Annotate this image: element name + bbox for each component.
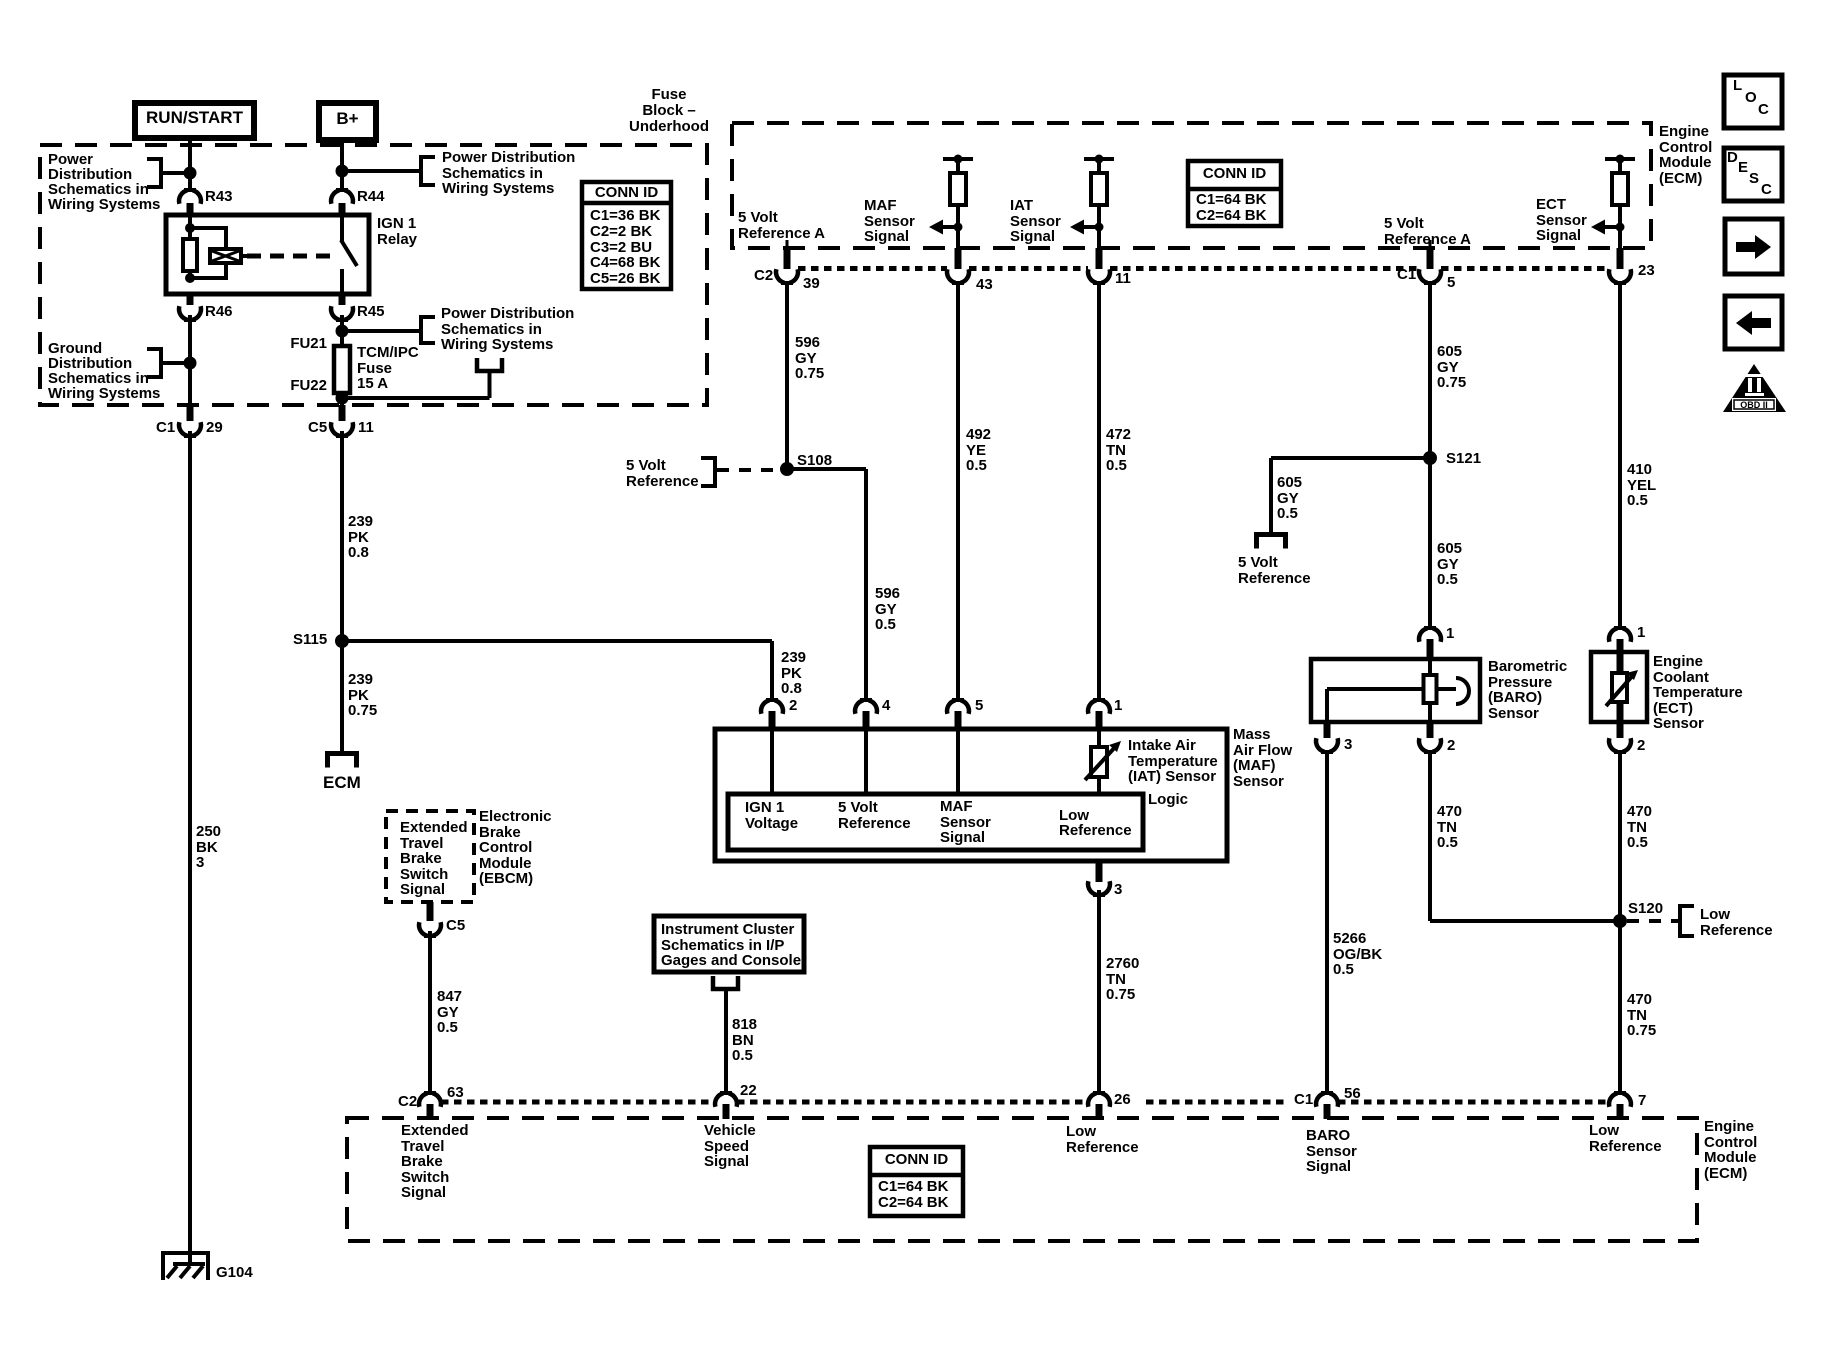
extended travel brake switch signal dashed box (EBCM) xyxy=(386,811,474,902)
junction dot power distribution tap xyxy=(184,167,197,180)
label 4 xyxy=(882,698,890,714)
wire IAT element to logic xyxy=(1097,777,1101,794)
relay switch contact upper xyxy=(340,215,344,241)
dashed wire bracket to S108 xyxy=(717,468,783,472)
BARO internal wire to pin 3 xyxy=(1327,687,1424,691)
connector C5 (EBCM) xyxy=(427,902,434,921)
junction dot IAT signal arrow xyxy=(1095,223,1104,232)
splice S115 xyxy=(335,634,349,648)
junction dot relay coil bottom xyxy=(185,273,195,283)
barometric pressure sensor box xyxy=(1311,659,1480,722)
label C5 (pin 11) xyxy=(308,420,327,436)
label IGN 1 Voltage xyxy=(745,800,798,831)
label MAF Sensor Signal (logic) xyxy=(940,799,991,846)
connector pin 11 (IAT) xyxy=(1096,248,1103,269)
label MAF Sensor Signal xyxy=(864,198,915,245)
label wire 605 GY 0.5 (main) xyxy=(1437,541,1462,588)
label IAT Sensor Signal xyxy=(1010,198,1061,245)
label wire 492 YE 0.5 xyxy=(966,427,991,474)
label FU22 xyxy=(281,378,327,394)
wire bracket to junction xyxy=(161,171,190,175)
wire S120 to ECM pin 7 xyxy=(1618,921,1622,1093)
label 5 Volt Reference (logic) xyxy=(838,800,911,831)
label CONN ID title (fuse block) xyxy=(582,185,671,201)
label 11 (fuse block) xyxy=(358,420,374,436)
wire B+ to R44 xyxy=(340,137,344,192)
label CONN ID rows (fuse block) xyxy=(590,208,660,287)
label 7 xyxy=(1638,1093,1646,1109)
label 3 (BARO) xyxy=(1344,737,1352,753)
label S108 xyxy=(797,453,832,469)
label wire 470 TN 0.5 (BARO) xyxy=(1437,804,1462,851)
label 3 (MAF) xyxy=(1114,882,1122,898)
instrument cluster staple xyxy=(713,976,738,989)
junction dot power distribution tap at R45 xyxy=(336,325,349,338)
label 5 xyxy=(1447,275,1455,291)
wire staple to fuse output xyxy=(488,371,492,398)
relay switch blade xyxy=(341,240,357,266)
connector pin 43 xyxy=(955,248,962,269)
engine control module dashed boundary (top) xyxy=(732,123,1651,248)
label S120 xyxy=(1628,901,1663,917)
label CONN ID rows (bottom) xyxy=(878,1179,948,1211)
label Ground Distribution Schematics in Wiring Systems xyxy=(48,341,160,401)
connector BARO pin 2 xyxy=(1427,722,1434,738)
engine control module dashed boundary (bottom) xyxy=(347,1118,1697,1241)
icon box back arrow xyxy=(1725,296,1782,349)
dashed wire S120 to low reference bracket xyxy=(1627,919,1678,923)
ECT thermistor element xyxy=(1606,670,1638,706)
label 2 (ECT) xyxy=(1637,738,1645,754)
label Fuse Block - Underhood xyxy=(610,87,728,135)
connector C5 pin 11 xyxy=(339,405,346,421)
wire ECT pin1 to element xyxy=(1617,652,1624,674)
wire BARO pin3 to ECM pin 56 xyxy=(1325,751,1329,1093)
wire 847 GY C5 to ECM pin 63 xyxy=(428,931,432,1093)
label S121 xyxy=(1446,451,1481,467)
connector pin C2-63 xyxy=(419,1091,441,1107)
off-page bracket Power Distribution (right of B+) xyxy=(421,157,435,185)
junction dot MAF signal arrow xyxy=(954,223,963,232)
label DESC letters xyxy=(1727,150,1738,166)
label 5 Volt Reference A (left) xyxy=(738,210,825,241)
wire resistor to pin 23 xyxy=(1618,205,1622,248)
wire junction to bracket xyxy=(342,169,421,173)
label C1 (pin 56) xyxy=(1294,1092,1313,1108)
connector R45 xyxy=(331,306,353,322)
connector R43 xyxy=(179,188,201,204)
CONN ID table (fuse block) xyxy=(582,182,671,289)
ECM connector face dotted line (top) xyxy=(798,266,947,271)
junction dot ECT signal arrow xyxy=(1616,223,1625,232)
wire MAF pin5 to logic xyxy=(956,729,960,794)
wire 818 BN to ECM pin 22 xyxy=(724,989,728,1093)
label 2 xyxy=(789,698,797,714)
label 5 Volt Reference A (right) xyxy=(1384,216,1471,247)
label OBD II xyxy=(1732,401,1776,410)
IAT sensor signal arrow xyxy=(1070,220,1099,235)
label 56 xyxy=(1344,1086,1361,1102)
wire S121 to BARO pin 1 xyxy=(1428,458,1432,629)
connector R44 xyxy=(331,188,353,204)
wire MAF pin2 to logic xyxy=(770,729,774,794)
label 5 Volt Reference (S108) xyxy=(626,458,699,489)
label 23 xyxy=(1638,263,1655,279)
wire 2760 TN MAF pin3 to ECM pin 26 xyxy=(1097,890,1101,1093)
connector MAF pin 2 xyxy=(761,698,783,714)
ECM internal resistor (MAF pull-up) xyxy=(956,159,960,174)
connector BARO pin 3 xyxy=(1324,722,1331,738)
junction dot relay coil top xyxy=(185,223,195,233)
connector MAF pin 3 xyxy=(1096,861,1103,882)
ECT sensor signal arrow xyxy=(1591,220,1620,235)
off-page bracket Power Distribution (top left) xyxy=(147,159,161,187)
wire 605 GY pin C1-5 to S121 xyxy=(1428,282,1432,458)
label FU21 xyxy=(281,336,327,352)
label LOC letters xyxy=(1733,78,1742,94)
ECM connector face dotted line (bottom) xyxy=(441,1100,715,1105)
connector pin 26 xyxy=(1088,1091,1110,1107)
wire RUN/START to R43 xyxy=(188,135,192,192)
label ECM xyxy=(323,775,361,791)
label Intake Air Temperature (IAT) Sensor xyxy=(1128,738,1218,785)
label ECT Sensor Signal xyxy=(1536,197,1587,244)
relay coil box with X xyxy=(210,249,241,263)
wire R46 down left column xyxy=(188,315,192,405)
label Mass Air Flow (MAF) Sensor xyxy=(1233,727,1292,789)
label S115 xyxy=(293,632,327,648)
label Power Distribution Schematics in Wiring Systems (top right) xyxy=(442,150,575,197)
fuse block underhood dashed boundary xyxy=(40,145,707,405)
connector R46 xyxy=(179,306,201,322)
label wire 847 GY 0.5 xyxy=(437,989,462,1036)
connector pin 22 xyxy=(715,1091,737,1107)
connector pin 23 xyxy=(1617,248,1624,269)
label 2 (BARO) xyxy=(1447,738,1455,754)
junction dot power distribution tap B+ xyxy=(336,165,349,178)
splice S108 xyxy=(780,462,794,476)
ECM internal resistor (IAT pull-up) xyxy=(1097,159,1101,174)
connector pin 7 xyxy=(1609,1091,1631,1107)
label CONN ID title (top) xyxy=(1188,166,1281,182)
label C1 (pin 29) xyxy=(156,420,175,436)
splice S121 xyxy=(1423,451,1437,465)
relay switch contact lower xyxy=(340,269,344,294)
wire 410 YEL pin23 to ECT pin 1 xyxy=(1618,282,1622,629)
wire MAF pin4 to logic xyxy=(864,729,868,794)
off-page bracket Low Reference (S120) xyxy=(1680,906,1694,936)
label CONN ID title (bottom) xyxy=(870,1152,963,1168)
connector pin C2-39 xyxy=(784,248,791,269)
label wire 410 YEL 0.5 xyxy=(1627,462,1656,509)
off-page bracket Power Distribution (at R45) xyxy=(421,317,435,343)
CONN ID table (bottom ECM) xyxy=(870,1147,963,1216)
wire S108 to MAF pin 4 xyxy=(787,467,866,471)
label wire 818 BN 0.5 xyxy=(732,1017,757,1064)
wire ECT pin2 to S120 xyxy=(1618,751,1622,921)
power feed box RUN/START xyxy=(132,100,257,141)
wire relay bottom to R46 xyxy=(187,294,194,304)
label Low Reference (pin 7) xyxy=(1589,1123,1662,1154)
icon box DESC xyxy=(1724,148,1782,201)
wire S121 to 5 volt reference branch xyxy=(1271,456,1430,460)
ECM internal node bar (ECT) xyxy=(1605,155,1635,164)
BARO resistor element xyxy=(1424,675,1437,703)
label R43 xyxy=(205,189,233,205)
connector MAF pin 5 xyxy=(947,698,969,714)
label wire 470 TN 0.5 (ECT) xyxy=(1627,804,1652,851)
icon box LOC xyxy=(1724,75,1782,128)
label Instrument Cluster Schematics in I/P Gages and Console xyxy=(661,922,801,969)
connector MAF pin 4 xyxy=(855,698,877,714)
label Power Distribution Schematics in Wiring Systems (top left) xyxy=(48,152,160,212)
label Extended Travel Brake Switch Signal (EBCM) xyxy=(400,820,468,898)
wire 596 GY pin39 to S108 xyxy=(785,282,789,469)
off-page bracket 5 Volt Reference (S108) xyxy=(701,458,715,486)
label wire 605 GY 0.75 xyxy=(1437,344,1466,391)
label 11 (IAT pin) xyxy=(1115,271,1131,287)
connector MAF pin 1 xyxy=(1088,698,1110,714)
relay box IGN 1 xyxy=(166,215,369,294)
label wire 5266 OG/BK 0.5 xyxy=(1333,931,1382,978)
label wire 2760 TN 0.75 xyxy=(1106,956,1139,1003)
ECM feed wire 5V ref A left xyxy=(786,240,789,248)
label 22 xyxy=(740,1083,757,1099)
relay resistor xyxy=(183,239,197,271)
label wire 239 PK 0.8 (left) xyxy=(348,514,373,561)
label Barometric Pressure (BARO) Sensor xyxy=(1488,659,1567,721)
label Low Reference (pin 26) xyxy=(1066,1124,1139,1155)
ECM wire terminal staple xyxy=(328,754,357,768)
label 63 xyxy=(447,1085,464,1101)
off-page bracket Ground Distribution xyxy=(147,349,161,377)
connector BARO pin 1 xyxy=(1419,626,1441,642)
label Electronic Brake Control Module (EBCM) xyxy=(479,809,552,887)
icon box forward arrow xyxy=(1725,219,1782,274)
label TCM/IPC Fuse 15 A xyxy=(357,345,419,392)
wire resistor to pin 43 xyxy=(956,205,960,248)
connector ECT pin 1 xyxy=(1609,626,1631,642)
splice S120 xyxy=(1613,914,1627,928)
wire fuse to C5 connector xyxy=(340,398,344,405)
wire R45 to fuse FU21 xyxy=(340,315,344,346)
MAF logic box xyxy=(728,794,1143,850)
label wire 239 PK 0.8 (right) xyxy=(781,650,806,697)
wire junction to bracket xyxy=(342,329,421,333)
label 1 (MAF) xyxy=(1114,698,1122,714)
label 39 xyxy=(803,276,820,292)
icon OBD II triangle xyxy=(1723,364,1786,412)
relay coil loop wires xyxy=(190,228,226,278)
label 26 xyxy=(1114,1092,1131,1108)
connector pin C1-5 xyxy=(1427,248,1434,269)
label Low Reference (S120) xyxy=(1700,907,1773,938)
label Extended Travel Brake Switch Signal (bottom) xyxy=(401,1123,469,1201)
wire MAF pin1 to IAT element xyxy=(1097,729,1101,748)
label IGN 1 Relay xyxy=(377,216,417,247)
label Engine Control Module (ECM) bottom right xyxy=(1704,1119,1757,1181)
label wire 596 GY 0.5 xyxy=(875,586,900,633)
label R45 xyxy=(357,304,385,320)
label Power Distribution Schematics in Wiring Systems (at R45) xyxy=(441,306,574,353)
wire bracket to junction xyxy=(161,361,190,365)
engine coolant temperature sensor box xyxy=(1591,652,1647,722)
BARO diaphragm symbol xyxy=(1436,678,1469,704)
power feed box B+ xyxy=(316,100,379,143)
label wire 470 TN 0.75 xyxy=(1627,992,1656,1039)
label 1 (BARO) xyxy=(1446,626,1454,642)
label wire 472 TN 0.5 xyxy=(1106,427,1131,474)
wire S115 to MAF pin 2 xyxy=(342,639,772,643)
label wire 239 PK 0.75 xyxy=(348,672,377,719)
ECM internal node bar (MAF) xyxy=(943,155,973,164)
fuse TCM/IPC FU21-FU22 xyxy=(334,346,350,393)
CONN ID table (top ECM) xyxy=(1188,161,1281,226)
label 43 xyxy=(976,277,993,293)
label C2 (pin 39) xyxy=(754,268,773,284)
wire S115 down to ECM terminal xyxy=(340,641,344,753)
label Engine Control Module (ECM) top right xyxy=(1659,124,1712,186)
label wire 596 GY 0.75 xyxy=(795,335,824,382)
wire C5-11 to S115 xyxy=(340,431,344,641)
relay coil branch wire upper xyxy=(188,215,192,230)
wire BARO element to pin 2 xyxy=(1428,703,1432,722)
ground symbol G104 xyxy=(161,1251,210,1280)
label wire 250 BK 3 xyxy=(196,824,221,871)
wire 472 TN pin11 to MAF pin 1 xyxy=(1097,282,1101,701)
junction dot ground distribution tap xyxy=(184,357,197,370)
label 29 xyxy=(206,420,223,436)
off-page return staple under Wiring Systems text xyxy=(477,358,502,371)
label C5 (EBCM) xyxy=(446,918,465,934)
label C2 (pin 63) xyxy=(398,1094,417,1110)
label C1 (pin 5) xyxy=(1397,267,1416,283)
ECM internal node bar (IAT) xyxy=(1084,155,1114,164)
relay actuation dashed link xyxy=(247,254,333,259)
MAF sensor signal arrow xyxy=(929,220,958,235)
wire element to ECT pin 2 xyxy=(1617,701,1624,722)
label Engine Coolant Temperature (ECT) Sensor xyxy=(1653,654,1743,732)
ECM internal resistor (ECT pull-up) xyxy=(1618,159,1622,174)
label 1 (ECT) xyxy=(1637,625,1645,641)
ECM feed wire 5V ref A right xyxy=(1429,240,1432,248)
label wire 605 GY 0.5 (branch) xyxy=(1277,475,1302,522)
junction dot fuse output xyxy=(336,392,349,405)
label Logic xyxy=(1148,792,1188,808)
IAT thermistor element xyxy=(1085,741,1121,780)
label Low Reference (logic) xyxy=(1059,808,1132,839)
connector ECT pin 2 xyxy=(1617,722,1624,738)
label R46 xyxy=(205,304,233,320)
connector pin C1-56 xyxy=(1316,1091,1338,1107)
wire 250 BK to ground G104 xyxy=(188,431,192,1264)
mass air flow sensor box xyxy=(715,729,1227,861)
wire 492 YE pin43 to MAF pin 5 xyxy=(956,282,960,701)
label CONN ID rows (top) xyxy=(1196,192,1266,224)
5 volt reference terminal staple xyxy=(1257,535,1286,549)
label G104 xyxy=(216,1265,253,1281)
connector C1 pin 29 xyxy=(187,405,194,421)
label BARO Sensor Signal xyxy=(1306,1128,1357,1175)
instrument cluster reference box xyxy=(654,916,804,972)
label R44 xyxy=(357,189,385,205)
wire BARO pin2 down and right to S120 xyxy=(1428,751,1432,921)
wire BARO pin1 to element xyxy=(1428,659,1432,676)
label 5 (MAF) xyxy=(975,698,983,714)
wire resistor to pin 11 xyxy=(1097,205,1101,248)
label 5 Volt Reference (below staple) xyxy=(1238,555,1311,586)
label Vehicle Speed Signal xyxy=(704,1123,756,1170)
